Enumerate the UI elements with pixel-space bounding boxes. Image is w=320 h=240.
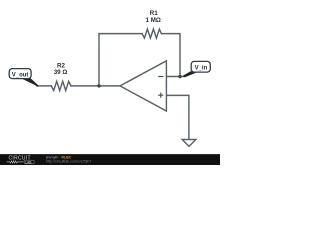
svg-text:LAB: LAB: [25, 160, 31, 164]
svg-text:1 MΩ: 1 MΩ: [146, 17, 161, 24]
node junction at V_in: [178, 75, 181, 78]
resistor R1: [142, 29, 161, 38]
wire V_out to R2: [37, 85, 52, 87]
svg-text:39 Ω: 39 Ω: [54, 69, 68, 76]
op-amp U1: [120, 61, 166, 111]
footer bar: [0, 154, 220, 165]
wire feedback left vertical: [99, 34, 142, 86]
ground: [182, 140, 196, 147]
svg-text:http://circuitlab.com/c/z25jb7: http://circuitlab.com/c/z25jb7: [46, 160, 91, 164]
footer logo resistor zigzag: [7, 161, 24, 163]
node junction at output: [97, 84, 100, 87]
resistor R2: [51, 81, 71, 90]
wire R2 to op-amp output apex: [71, 85, 120, 87]
flag V_out: [9, 69, 38, 87]
wire R1 right to minus node: [161, 34, 180, 77]
svg-text:R1: R1: [150, 10, 158, 17]
wire plus input to ground: [166, 95, 189, 139]
label R1: [54, 10, 161, 76]
footer logo LAB box: [24, 160, 34, 164]
wire minus input: [166, 76, 184, 78]
svg-text:V_in: V_in: [195, 65, 208, 71]
svg-text:V_out: V_out: [12, 72, 29, 78]
flag V_in: [183, 61, 210, 77]
